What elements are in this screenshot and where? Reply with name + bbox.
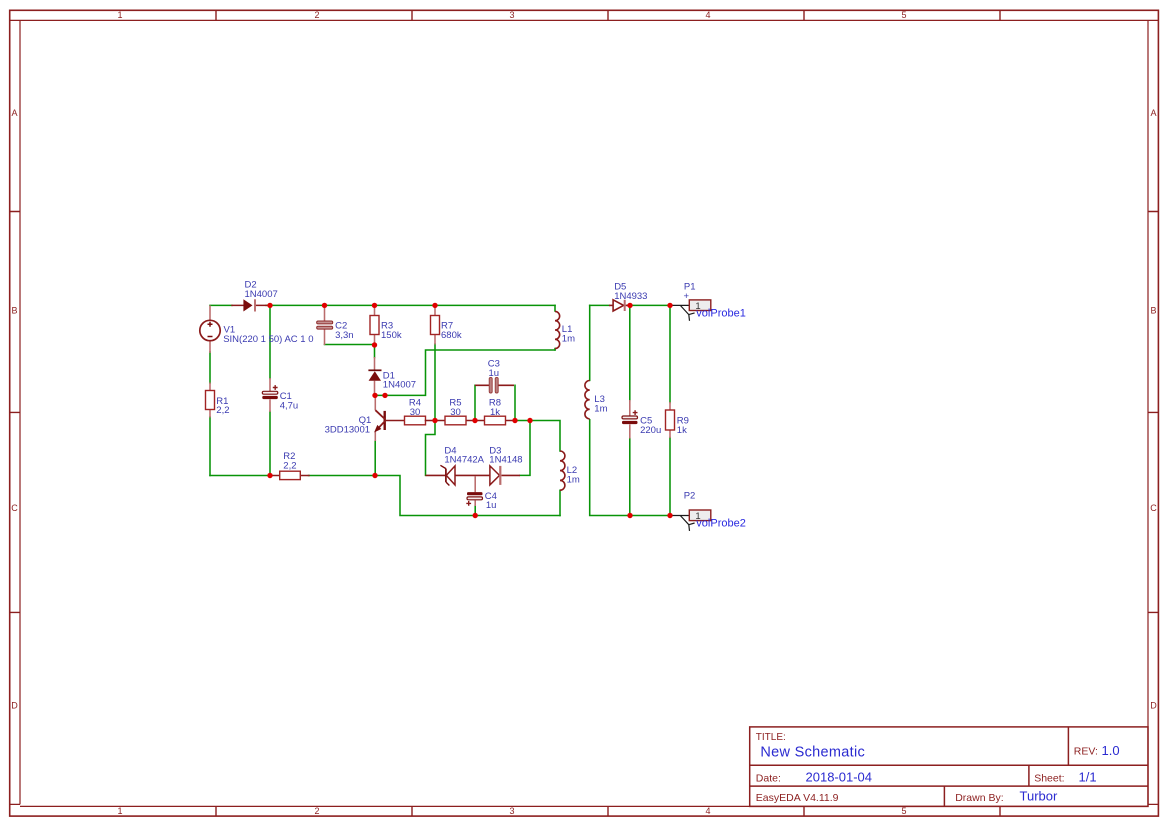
junction D2 cathode / C1 branch [267, 303, 272, 308]
ruler numbers top [117, 10, 906, 20]
svg-text:1m: 1m [594, 403, 607, 414]
svg-text:Date:: Date: [756, 772, 781, 784]
probe P2 [670, 510, 711, 531]
label R5 [449, 397, 461, 417]
diode D5 1N4933 [609, 300, 629, 311]
capacitor C5 polarized [622, 400, 638, 439]
resistor R4 [405, 416, 436, 425]
resistor R2 [271, 471, 309, 479]
net volProbe1 [696, 308, 746, 320]
svg-text:2018-01-04: 2018-01-04 [806, 769, 873, 784]
svg-text:3: 3 [509, 10, 514, 20]
label D2 [245, 280, 278, 300]
wire C2 branch [325, 344, 375, 346]
junction R8-C3 right [512, 418, 517, 423]
voltage source V1 [200, 305, 220, 353]
svg-text:3DD13001: 3DD13001 [325, 424, 370, 435]
svg-text:B: B [1150, 306, 1156, 316]
wire D3 right to base row [520, 421, 530, 476]
svg-text:Drawn By:: Drawn By: [955, 792, 1003, 804]
svg-text:1N4007: 1N4007 [383, 380, 416, 391]
resistor R5 [435, 416, 475, 425]
junction base row / R7 line [432, 418, 437, 423]
zener diode D4 1N4742A [426, 465, 456, 485]
wire C4 stub [474, 506, 476, 516]
svg-text:30: 30 [450, 407, 461, 418]
inductor L3 [585, 381, 590, 419]
svg-text:2,2: 2,2 [216, 405, 229, 416]
label R8 [489, 397, 501, 417]
svg-text:150k: 150k [381, 330, 402, 341]
wire C1 branch [269, 305, 271, 475]
capacitor C4 polarized [466, 476, 482, 506]
svg-text:5: 5 [901, 806, 906, 816]
junction R3 top [372, 303, 377, 308]
svg-text:+: + [684, 291, 690, 302]
wire L1 vertical stubs [554, 305, 556, 350]
junction D5-C5 node [627, 303, 632, 308]
svg-text:1: 1 [117, 806, 122, 816]
svg-text:2: 2 [314, 10, 319, 20]
label D1 [383, 370, 416, 390]
svg-text:220u: 220u [640, 425, 661, 436]
wire D4 to D3 [455, 474, 490, 476]
junction C5 bottom [627, 513, 632, 518]
resistor R8 [475, 416, 515, 425]
junction R5-C3 left [472, 418, 477, 423]
title block [750, 727, 1148, 807]
svg-text:C: C [1150, 503, 1157, 513]
diode D2 1N4007 [232, 299, 267, 311]
wire R7 branch down [426, 344, 436, 475]
label D5 [614, 281, 647, 301]
label L2 [567, 465, 580, 485]
wire right section top [590, 304, 670, 306]
resistor R1 [206, 383, 215, 418]
junction C2 branch [322, 303, 327, 308]
ruler numbers bottom [117, 806, 906, 816]
svg-text:1.0: 1.0 [1102, 743, 1120, 758]
svg-text:Sheet:: Sheet: [1034, 772, 1064, 784]
svg-text:30: 30 [410, 407, 421, 418]
svg-text:EasyEDA V4.11.9: EasyEDA V4.11.9 [756, 792, 839, 804]
svg-text:New Schematic: New Schematic [760, 745, 865, 761]
svg-text:A: A [1150, 108, 1156, 118]
svg-text:D: D [11, 701, 18, 711]
label L3 [594, 394, 607, 414]
svg-text:2: 2 [314, 806, 319, 816]
wire D1 junction to L1 bottom [375, 350, 555, 395]
junction R9-P2 node [667, 513, 672, 518]
svg-text:4,7u: 4,7u [280, 400, 299, 411]
junction C2-R3 node [372, 342, 377, 347]
wire L2 bottom [559, 490, 561, 515]
svg-text:1N4148: 1N4148 [489, 455, 522, 466]
svg-text:4: 4 [705, 10, 710, 20]
svg-text:1N4933: 1N4933 [614, 291, 647, 302]
svg-text:1m: 1m [567, 474, 580, 485]
svg-text:1/1: 1/1 [1079, 769, 1097, 784]
wire Q1 emitter down [374, 441, 376, 476]
svg-text:1k: 1k [490, 407, 500, 418]
label C2 [335, 321, 354, 341]
svg-text:volProbe2: volProbe2 [696, 518, 746, 530]
label R3 [381, 321, 402, 341]
wire R9 branch [669, 305, 671, 515]
wire R3 branch [374, 345, 376, 358]
svg-text:1N4742A: 1N4742A [444, 455, 484, 466]
junction base row to D3 [527, 418, 532, 423]
label P2 [684, 490, 696, 501]
wire C3 left leg [474, 385, 476, 420]
svg-text:1u: 1u [489, 368, 500, 379]
wire C5 branch [629, 305, 631, 515]
label D4 [444, 445, 484, 465]
wire left rail [209, 352, 211, 476]
junction D1 wire node [382, 393, 387, 398]
junction C1 bottom [267, 473, 272, 478]
diode D1 1N4007 [368, 357, 381, 395]
resistor R3 [370, 305, 379, 345]
svg-text:volProbe1: volProbe1 [696, 308, 746, 320]
label R7 [441, 321, 462, 341]
net volProbe2 [696, 518, 746, 530]
junction R7 top [432, 303, 437, 308]
svg-text:1m: 1m [562, 333, 575, 344]
label L1 [562, 324, 575, 344]
junction C4 bottom [473, 513, 478, 518]
svg-text:A: A [11, 108, 17, 118]
svg-text:P2: P2 [684, 490, 696, 501]
label R2 [283, 451, 296, 471]
svg-text:D: D [1150, 701, 1157, 711]
label R1 [216, 396, 229, 416]
wire base row [515, 421, 560, 452]
junction R9-P1 node [667, 303, 672, 308]
svg-text:4: 4 [705, 806, 710, 816]
inductor L2 [560, 451, 565, 490]
junction D1-Q1 collector [372, 393, 377, 398]
label C3 [488, 359, 500, 379]
label Q1 [325, 415, 372, 435]
svg-text:1N4007: 1N4007 [245, 289, 278, 300]
junction Q1 emitter [372, 473, 377, 478]
capacitor C2 [317, 306, 333, 345]
label D3 [489, 445, 522, 465]
svg-text:2,2: 2,2 [283, 461, 296, 472]
svg-text:Turbor: Turbor [1020, 788, 1058, 803]
svg-text:3: 3 [509, 806, 514, 816]
inductor L1 [555, 311, 560, 348]
label R9 [677, 415, 689, 436]
svg-text:1: 1 [117, 10, 122, 20]
label C4 [485, 491, 497, 511]
capacitor C3 [475, 377, 514, 393]
capacitor C1 polarized [262, 378, 278, 412]
svg-text:5: 5 [901, 10, 906, 20]
label P1 [684, 281, 696, 301]
svg-text:3,3n: 3,3n [335, 330, 354, 341]
wire L3 branch [590, 305, 670, 515]
wire C3 right leg [514, 385, 516, 420]
label C5 [640, 415, 661, 436]
label V1 [223, 325, 313, 345]
transistor Q1 3DD13001 [375, 397, 405, 441]
svg-text:REV:: REV: [1074, 746, 1098, 758]
svg-text:1k: 1k [677, 425, 687, 436]
label R4 [409, 397, 421, 417]
svg-text:680k: 680k [441, 330, 462, 341]
label C1 [280, 391, 299, 411]
ruler letters right [1150, 108, 1157, 711]
wire top rail left section [210, 304, 555, 306]
svg-text:SIN(220 1 50) AC 1 0: SIN(220 1 50) AC 1 0 [223, 334, 313, 345]
diode D3 1N4148 [490, 466, 520, 485]
wire bottom-left rail [210, 476, 560, 516]
svg-text:TITLE:: TITLE: [756, 732, 786, 743]
ruler letters left [11, 108, 18, 711]
svg-text:C: C [11, 503, 18, 513]
probe P1 [670, 300, 711, 321]
resistor R9 [666, 402, 675, 438]
resistor R7 [431, 305, 440, 344]
svg-text:1u: 1u [486, 500, 497, 511]
svg-text:B: B [11, 306, 17, 316]
